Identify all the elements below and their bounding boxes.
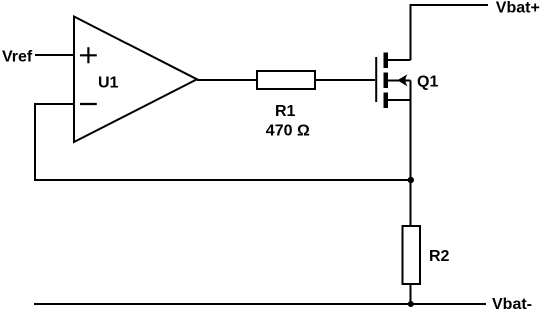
junction on bottom rail [408, 301, 414, 307]
svg-text:Vref: Vref [2, 49, 33, 66]
transistor Q1 (N-channel MOSFET) [376, 53, 410, 109]
wire node A to R2 [410, 180, 412, 226]
svg-text:R1: R1 [275, 103, 296, 120]
resistor R1 [257, 71, 315, 89]
resistor R2 [403, 226, 421, 284]
svg-text:Q1: Q1 [417, 74, 438, 91]
wire bottom rail Vbat- [34, 303, 486, 305]
wire R2 to bottom rail [410, 284, 412, 304]
wire top rail to Vbat+ [410, 4, 489, 6]
wire R1 to Q1 gate [315, 79, 375, 81]
wire Q1 source down to node A [410, 81, 412, 181]
op-amp U1 [74, 17, 197, 143]
svg-text:Vbat-: Vbat- [492, 296, 532, 312]
svg-text:Vbat+: Vbat+ [496, 0, 540, 17]
feedback wire node A to U1 inverting input [35, 104, 411, 180]
wire U1 output to R1 [197, 79, 257, 81]
wire Vref to U1 noninverting input [35, 54, 74, 56]
wire Q1 drain to top rail [410, 5, 412, 60]
svg-text:470 Ω: 470 Ω [266, 122, 310, 139]
svg-text:R2: R2 [429, 248, 450, 265]
svg-text:U1: U1 [98, 75, 119, 92]
junction node A [408, 177, 414, 183]
